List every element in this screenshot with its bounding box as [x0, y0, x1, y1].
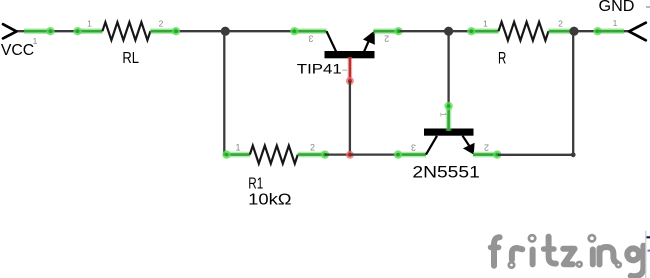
wire junction A down to R1	[224, 31, 227, 154]
svg-text:GND: GND	[599, 0, 635, 15]
svg-text:R1: R1	[248, 175, 263, 192]
svg-text:TIP41: TIP41	[297, 62, 342, 77]
resistor R	[467, 18, 573, 67]
svg-text:RL: RL	[122, 50, 139, 67]
junction C	[444, 27, 453, 36]
wire 2N5551 emitter to corner E	[498, 154, 573, 156]
svg-text:2: 2	[159, 18, 164, 28]
svg-text:3: 3	[308, 34, 313, 44]
junction D	[569, 27, 578, 36]
svg-text:1: 1	[87, 18, 92, 28]
wire node B to 2N5551	[350, 153, 398, 155]
wire red TIP41 base	[346, 57, 354, 85]
wire junction A to TIP41 collector	[226, 30, 296, 32]
wire RL to junction A	[172, 27, 226, 35]
resistor RL	[73, 18, 176, 67]
svg-text:2: 2	[484, 143, 489, 153]
svg-text:2N5551: 2N5551	[412, 164, 479, 182]
wire junction D down to corner E	[572, 31, 574, 155]
panel edge bottom right	[646, 231, 650, 278]
svg-text:1: 1	[439, 112, 449, 117]
wire TIP41 emitter to junction C	[400, 30, 449, 32]
wire junction D to GND	[574, 27, 629, 35]
wire VCC to RL	[17, 30, 78, 32]
svg-text:1: 1	[235, 143, 240, 153]
wire TIP41 base down to node B	[349, 81, 351, 155]
svg-text:R: R	[498, 49, 506, 67]
transistor Q1 TIP41	[290, 27, 403, 77]
svg-text:VCC: VCC	[1, 42, 34, 59]
wire junction C down to 2N5551 base	[447, 31, 449, 106]
junction A	[221, 27, 230, 36]
svg-text:3: 3	[411, 143, 416, 153]
connector J1 VCC	[1, 24, 55, 59]
transistor Q2 2N5551	[394, 102, 502, 182]
fritzing logo	[491, 235, 644, 276]
bend point E	[571, 152, 576, 157]
svg-text:1: 1	[613, 18, 618, 28]
svg-text:2: 2	[384, 34, 389, 44]
svg-text:10kΩ: 10kΩ	[248, 192, 292, 209]
node B red endpoint	[346, 151, 354, 159]
svg-text:1: 1	[483, 18, 488, 28]
wire R1 to node B	[325, 153, 350, 155]
svg-text:2: 2	[558, 18, 563, 28]
resistor R1	[222, 143, 329, 209]
svg-text:1: 1	[33, 36, 38, 46]
wire junction C to resistor R	[449, 30, 472, 32]
connector J2 GND	[598, 0, 650, 40]
svg-text:2: 2	[310, 143, 315, 153]
